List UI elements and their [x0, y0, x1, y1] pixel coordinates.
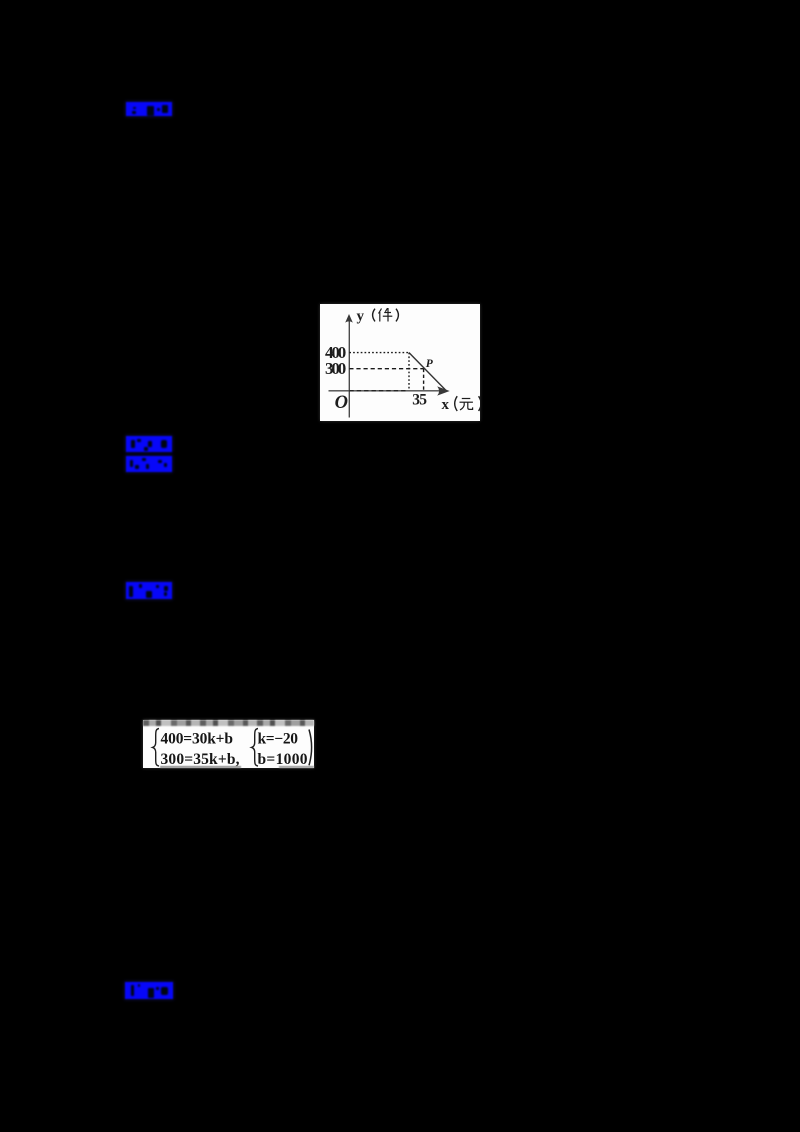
svg-text:300=35k+b,: 300=35k+b,: [160, 750, 239, 766]
svg-text:b=1000: b=1000: [257, 750, 307, 766]
svg-text:300: 300: [325, 359, 346, 378]
svg-text:400=30k+b: 400=30k+b: [160, 730, 233, 747]
svg-text:k=−20: k=−20: [257, 730, 298, 747]
svg-text:x: x: [441, 397, 449, 413]
svg-text:P: P: [425, 357, 433, 369]
svg-text:35: 35: [412, 391, 427, 408]
svg-text:y: y: [356, 308, 364, 324]
svg-text:O: O: [334, 393, 347, 413]
